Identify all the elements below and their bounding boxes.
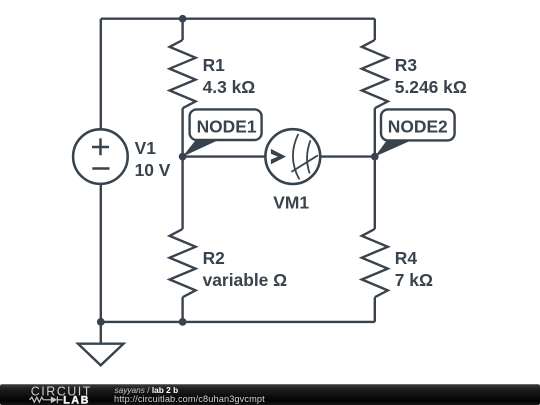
svg-text:NODE2: NODE2 — [388, 116, 448, 136]
svg-text:4.3 kΩ: 4.3 kΩ — [203, 77, 256, 97]
wire R3 top lead — [374, 19, 376, 40]
resistor R4 — [362, 229, 388, 297]
resistor R3 — [362, 40, 388, 108]
node NODE1 callout box — [190, 109, 262, 140]
VM1 chevron — [271, 149, 286, 164]
wire ground stub — [100, 322, 102, 344]
node bottom left junction — [97, 318, 105, 326]
VM1 scale arc right — [307, 140, 310, 173]
logo resistor squiggle — [30, 396, 63, 403]
wire R4 bottom lead — [374, 297, 376, 322]
wire node1 to voltmeter — [183, 155, 266, 157]
wire left branch upper — [100, 19, 102, 130]
node bottom mid junction — [179, 318, 187, 326]
wire bottom rail — [101, 321, 375, 323]
svg-text:R1: R1 — [203, 55, 226, 75]
wire R3 bottom lead to node 2 — [374, 108, 376, 156]
svg-text:VM1: VM1 — [273, 193, 309, 213]
wire top rail — [101, 18, 375, 20]
svg-text:LAB: LAB — [63, 394, 90, 405]
svg-text:7 kΩ: 7 kΩ — [395, 270, 433, 290]
svg-text:R2: R2 — [203, 248, 225, 268]
svg-text:R4: R4 — [395, 248, 418, 268]
svg-text:V1: V1 — [135, 138, 157, 158]
V1 plus sign — [92, 138, 109, 155]
node NODE1 pointer — [183, 140, 218, 156]
voltage source V1 — [73, 129, 128, 184]
svg-text:http://circuitlab.com/c8uhan3g: http://circuitlab.com/c8uhan3gvcmpt — [114, 394, 265, 404]
svg-text:5.246 kΩ: 5.246 kΩ — [395, 77, 467, 97]
node NODE2 pointer — [375, 141, 411, 157]
svg-text:variable Ω: variable Ω — [203, 270, 288, 290]
VM1 needle — [291, 155, 318, 172]
svg-text:10 V: 10 V — [135, 160, 171, 180]
wire R2 top lead — [181, 157, 183, 229]
logo diode arrow — [51, 396, 57, 403]
resistor R1 — [170, 40, 196, 108]
node junction top — [179, 15, 187, 23]
wire R2 bottom lead — [181, 297, 183, 322]
node NODE2 callout box — [381, 109, 455, 140]
node NODE2 junction — [371, 153, 379, 161]
svg-text:R3: R3 — [395, 55, 418, 75]
wire left branch lower — [100, 184, 102, 322]
wire R1 top lead — [181, 19, 183, 40]
V1 minus sign — [92, 167, 109, 170]
wire R1 bottom lead to node 1 — [181, 108, 183, 156]
svg-text:NODE1: NODE1 — [197, 116, 257, 136]
VM1 scale arc left — [293, 134, 299, 180]
ground — [78, 344, 124, 366]
wire voltmeter to node2 — [320, 155, 375, 157]
wire R4 top lead — [374, 157, 376, 229]
resistor R2 — [170, 229, 196, 297]
voltmeter VM1 body — [265, 129, 320, 184]
node NODE1 junction — [179, 153, 187, 161]
